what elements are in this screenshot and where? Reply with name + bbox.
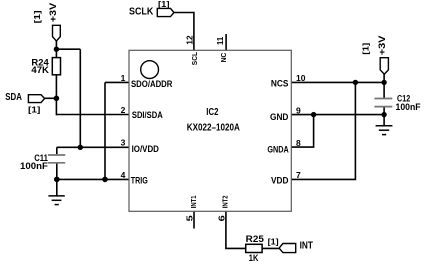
svg-text:[1]: [1] (33, 10, 42, 23)
wire R25 to INT flag (262, 247, 279, 249)
node junction C11/TRIG/ground (54, 177, 60, 183)
node junction +3V/R24 (54, 47, 59, 52)
resistor R25 (246, 244, 262, 252)
svg-text:100nF: 100nF (20, 161, 48, 171)
svg-text:SCLK: SCLK (129, 6, 154, 17)
supply +3V (right) symbol (380, 58, 388, 74)
wire +3V left to R24 top (55, 41, 57, 58)
wire junction to IO/VDD rail (horizontal) (56, 48, 80, 50)
wire C11 bottom to ground (56, 164, 58, 196)
svg-text:SDA: SDA (5, 92, 22, 103)
svg-text:SDI/SDA: SDI/SDA (132, 110, 163, 120)
port INT flag (279, 244, 296, 253)
svg-text:12: 12 (185, 35, 195, 44)
wire GNDA branch to pin 8 (291, 115, 313, 148)
svg-text:IO/VDD: IO/VDD (132, 144, 160, 154)
wire pin 3 IO/VDD row (57, 146, 129, 148)
wire C12 bottom through node to ground (383, 107, 385, 125)
svg-text:4: 4 (121, 170, 126, 180)
capacitor C12 (374, 99, 392, 107)
supply +3V (left) symbol (53, 25, 61, 41)
node junction NCS/VDD branch (353, 80, 358, 85)
svg-text:3: 3 (121, 138, 126, 148)
svg-text:SDO/ADDR: SDO/ADDR (131, 79, 173, 89)
svg-text:+3V: +3V (48, 2, 59, 22)
node junction on TRIG row (102, 177, 108, 183)
wire vertical branch to VDD pin 7 (291, 82, 355, 179)
wire vertical down to pin3 line (79, 49, 81, 147)
svg-text:+3V: +3V (377, 35, 388, 55)
wire pin 6 INT2 to R25 (226, 211, 246, 248)
IC2 pin-1 indicator circle (141, 61, 159, 79)
port SDA flag (28, 95, 44, 103)
svg-text:[1]: [1] (28, 106, 41, 115)
wire +3V down through node to C12 top (383, 74, 385, 98)
wire SDA flag to junction (45, 97, 57, 99)
svg-text:8: 8 (296, 138, 301, 148)
svg-text:KX022–1020A: KX022–1020A (187, 123, 240, 134)
svg-text:SCL: SCL (190, 52, 199, 66)
svg-text:VDD: VDD (271, 176, 289, 186)
svg-text:[1]: [1] (361, 42, 370, 54)
svg-text:INT1: INT1 (189, 196, 198, 209)
svg-text:100nF: 100nF (396, 102, 422, 112)
node junction +3V/C12 (381, 80, 386, 85)
node junction +3V rail / pin3 (78, 145, 83, 150)
wire R24 bottom to SDA node and down to pin2 row (55, 75, 57, 116)
pin 11 NC stub (225, 34, 227, 50)
svg-text:NC: NC (219, 52, 228, 62)
svg-text:2: 2 (121, 105, 126, 115)
node junction GND/GNDA branch (311, 112, 316, 117)
pin 5 INT1 stub (193, 211, 195, 228)
svg-text:1: 1 (121, 73, 126, 83)
svg-text:GNDA: GNDA (267, 145, 289, 155)
wire corner down to C11 top (56, 147, 58, 154)
svg-text:R25: R25 (246, 234, 264, 244)
svg-text:1K: 1K (249, 253, 259, 263)
wire SCLK to pin 12 (174, 13, 194, 51)
svg-text:6: 6 (216, 215, 226, 221)
resistor R24 (52, 58, 60, 75)
port SCLK flag (157, 8, 174, 16)
ground (left) (48, 196, 64, 205)
svg-text:INT: INT (300, 240, 313, 251)
svg-text:NCS: NCS (271, 78, 289, 88)
svg-text:5: 5 (185, 215, 195, 221)
ground (right) (376, 126, 393, 135)
wire SDA node to pin 2 SDI/SDA (56, 114, 129, 116)
wire pin 1 SDO/ADDR stub (105, 81, 129, 83)
node junction C12 bottom/ground (381, 112, 386, 117)
svg-text:INT2: INT2 (221, 196, 230, 209)
wire pin 9 GND row to C12 bottom (291, 114, 384, 116)
svg-text:[1]: [1] (268, 237, 279, 246)
capacitor C11 (48, 155, 65, 163)
svg-text:47K: 47K (31, 65, 49, 75)
node junction SDA (54, 96, 60, 102)
op IC2 body outline (129, 50, 291, 211)
svg-text:IC2: IC2 (206, 107, 218, 118)
svg-text:TRIG: TRIG (131, 176, 148, 186)
svg-text:9: 9 (296, 105, 301, 115)
svg-text:10: 10 (296, 73, 306, 83)
svg-text:[1]: [1] (158, 0, 170, 9)
wire pin 4 TRIG row (57, 178, 129, 180)
svg-text:7: 7 (296, 170, 301, 180)
svg-text:GND: GND (270, 112, 289, 122)
wire pin 10 NCS row (291, 81, 384, 83)
svg-text:11: 11 (215, 37, 225, 45)
wire vertical pin1 to TRIG row (104, 82, 106, 179)
